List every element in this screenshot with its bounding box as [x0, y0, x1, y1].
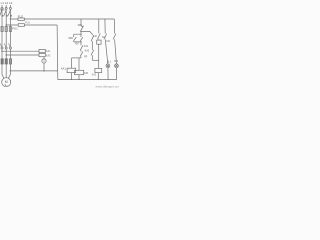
svg-text:3~: 3~ — [5, 83, 9, 87]
svg-text:FU2: FU2 — [18, 15, 24, 19]
svg-text:SB2: SB2 — [68, 37, 73, 40]
svg-text:FU1: FU1 — [12, 27, 18, 31]
svg-text:L1: L1 — [1, 1, 5, 5]
svg-text:KA1: KA1 — [46, 50, 51, 53]
svg-text:L3: L3 — [9, 1, 13, 5]
svg-text:SB1: SB1 — [78, 24, 83, 27]
svg-text:FR: FR — [84, 56, 87, 58]
svg-text:QS: QS — [0, 7, 4, 11]
svg-text:FU3: FU3 — [25, 21, 30, 24]
svg-text:KA1: KA1 — [84, 45, 89, 48]
svg-text:KM: KM — [75, 43, 79, 45]
svg-text:KM: KM — [102, 37, 106, 39]
svg-text:KA2: KA2 — [85, 49, 90, 52]
svg-text:KA1: KA1 — [61, 67, 66, 70]
svg-text:KM: KM — [106, 41, 110, 43]
svg-text:KA2: KA2 — [92, 74, 97, 77]
svg-text:KM: KM — [84, 72, 88, 75]
svg-text:HL2: HL2 — [114, 61, 119, 63]
svg-text:L2: L2 — [5, 1, 9, 5]
svg-text:HL1: HL1 — [107, 62, 112, 64]
svg-text:KA2: KA2 — [46, 54, 51, 57]
svg-text:www.diangon.com: www.diangon.com — [96, 85, 120, 89]
svg-text:KM: KM — [93, 36, 97, 38]
